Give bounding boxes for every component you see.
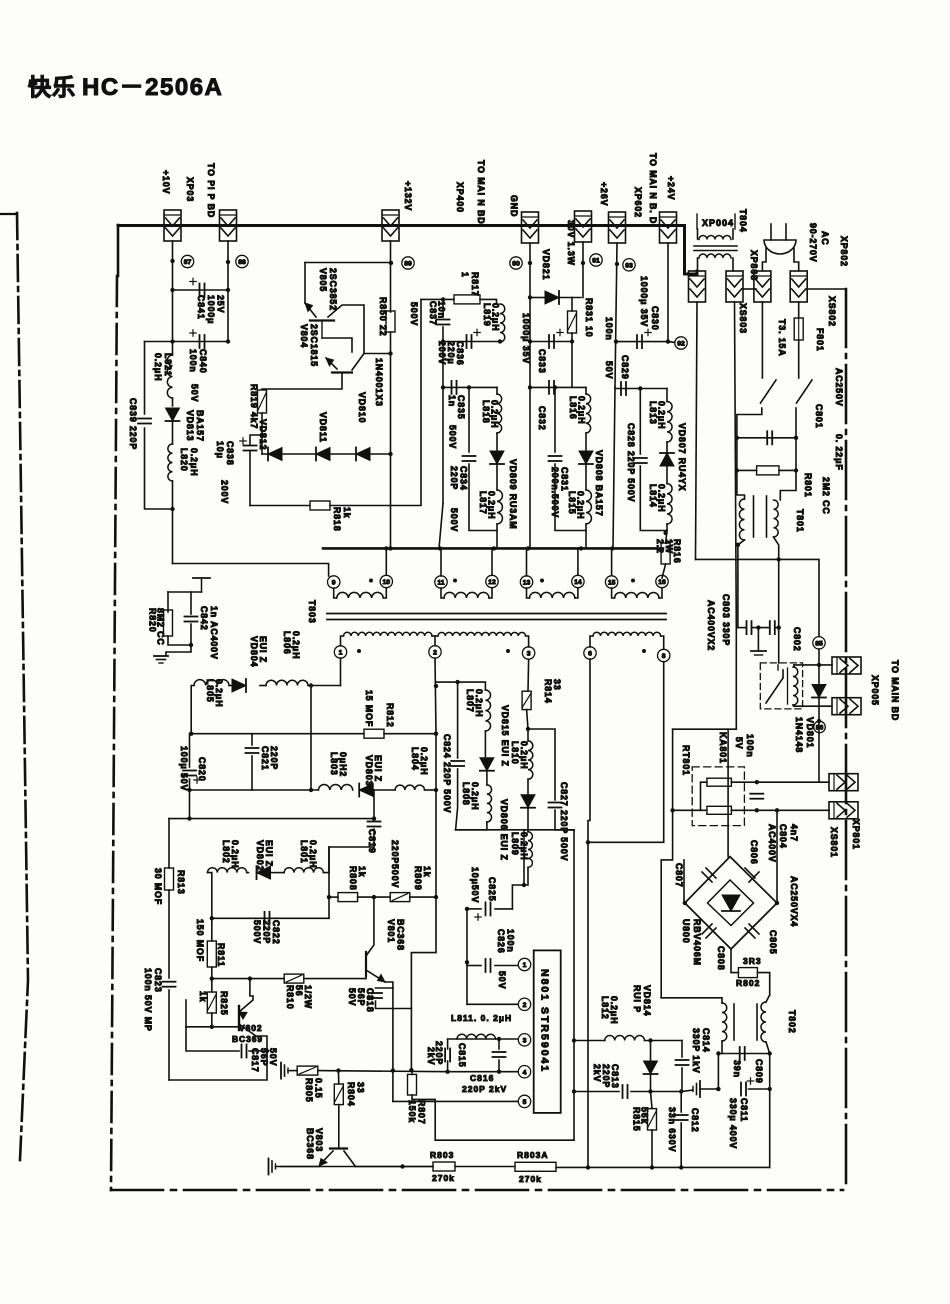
- svg-text:BC369: BC369: [232, 1034, 263, 1044]
- diode VD802: [257, 866, 271, 879]
- junction R825 bot: [210, 1025, 214, 1029]
- resistor R811: [207, 941, 216, 967]
- svg-text:39n: 39n: [732, 1060, 742, 1078]
- svg-text:C823: C823: [153, 968, 163, 993]
- label +132V: [403, 181, 413, 211]
- label C821: [260, 746, 279, 771]
- svg-text:T3. 15A: T3. 15A: [777, 319, 787, 357]
- junction C802 r: [777, 625, 781, 629]
- label C805: [768, 930, 778, 955]
- svg-text:XP602: XP602: [633, 187, 643, 218]
- wire left rail N801: [466, 909, 468, 1004]
- capacitor C828: [634, 457, 647, 459]
- capacitor C818: [369, 992, 382, 994]
- wire L816 top: [585, 387, 587, 394]
- capacitor C819: [368, 821, 381, 823]
- svg-text:L818: L818: [481, 400, 491, 424]
- svg-text:U800: U800: [681, 919, 691, 944]
- wire C814 down: [681, 1068, 683, 1092]
- junction R815 rail: [650, 1165, 654, 1169]
- junction R808 right: [372, 895, 376, 899]
- label XP803: [749, 250, 759, 281]
- svg-text:C802: C802: [792, 627, 802, 652]
- wire relay coil top: [793, 665, 795, 667]
- svg-text:T801: T801: [795, 509, 805, 533]
- capacitor C826: [485, 959, 487, 972]
- wire R816-pin16: [662, 564, 666, 578]
- resistor R804: [334, 1084, 343, 1105]
- svg-text:2.2: 2.2: [655, 539, 665, 554]
- wire R825 bot: [211, 1013, 213, 1027]
- wire relay feed: [778, 559, 780, 628]
- svg-text:0.2μH: 0.2μH: [474, 689, 484, 717]
- diode VD812: [268, 448, 282, 461]
- wire R810 row: [212, 978, 284, 980]
- label R810: [285, 985, 313, 1010]
- wire L801 row: [323, 847, 329, 873]
- junction C804 bot: [755, 808, 759, 812]
- wire C827 corridor: [573, 830, 575, 1140]
- svg-text:R811: R811: [216, 943, 226, 967]
- wire c3 mid: [571, 342, 573, 388]
- wire 93 to bus: [613, 387, 615, 548]
- connector XS801 row2: [829, 802, 858, 819]
- wire V801 emitter down: [392, 988, 394, 1070]
- label C842: [199, 606, 219, 660]
- svg-text:VD810: VD810: [357, 392, 367, 423]
- bottom rail: [281, 1166, 433, 1168]
- wire L816-VD808: [585, 433, 587, 450]
- wire C817 left: [186, 1027, 239, 1051]
- wire row1: [794, 664, 832, 666]
- ground R805: [280, 1063, 282, 1079]
- capacitor C811: [740, 1083, 742, 1096]
- wire 92 stub: [668, 341, 675, 344]
- wire V801 emitter: [385, 982, 393, 988]
- wire +132V down2: [390, 332, 392, 354]
- diode VD813: [166, 408, 180, 421]
- wire R807 leads: [411, 1070, 413, 1074]
- ground V803: [268, 1159, 270, 1175]
- wire c2 mid: [442, 342, 444, 388]
- diode VD808: [579, 451, 593, 464]
- wire R804 bot: [338, 1105, 340, 1147]
- label L808: [461, 782, 480, 810]
- svg-text:1: 1: [460, 272, 470, 278]
- RT801 left link: [701, 782, 707, 810]
- label VD815: [500, 705, 510, 767]
- label XP801: [851, 819, 861, 850]
- label +24V: [666, 176, 676, 200]
- wire C817 right: [249, 1050, 267, 1052]
- wire pin2 row: [467, 1003, 518, 1005]
- wire R808 row: [329, 896, 338, 898]
- label RT801: [681, 745, 691, 776]
- label VD821: [541, 249, 551, 280]
- label R805: [304, 1078, 324, 1103]
- switch S1b: [797, 380, 813, 403]
- label TO MAIN BD 2: [648, 153, 658, 228]
- svg-text:C815: C815: [457, 1043, 467, 1068]
- wire VD821-R831: [559, 297, 581, 299]
- svg-text:6: 6: [588, 651, 592, 658]
- wire L807 loop top: [458, 682, 486, 690]
- label XP802: [839, 236, 849, 267]
- svg-text:0.2μH: 0.2μH: [576, 491, 586, 519]
- svg-text:L816: L816: [568, 396, 578, 420]
- label R803: [430, 1150, 454, 1160]
- T803 winding 1-2: [341, 636, 344, 645]
- border bottom: [111, 1189, 843, 1192]
- label C814: [691, 1028, 711, 1074]
- wire R831 leads: [571, 298, 573, 312]
- svg-text:AC250VX4: AC250VX4: [789, 876, 799, 927]
- label VD813: [185, 410, 205, 442]
- svg-text:R808: R808: [348, 866, 358, 891]
- capacitor C838: [244, 445, 257, 447]
- wire VD814 lead: [650, 1041, 652, 1061]
- wire 93 down: [615, 243, 617, 387]
- label VD804: [249, 636, 268, 667]
- wire C834 down: [469, 464, 497, 531]
- wire R809 right: [410, 896, 436, 898]
- inductor L819: [500, 304, 505, 342]
- label T802: [787, 1010, 797, 1034]
- label C830: [650, 306, 660, 331]
- wire XP03 down: [172, 241, 174, 290]
- svg-text:C837: C837: [428, 301, 438, 326]
- label C841: [196, 295, 225, 324]
- svg-text:2SC1815: 2SC1815: [309, 324, 319, 367]
- svg-text:10n: 10n: [437, 301, 447, 319]
- wire C816 branch: [498, 1039, 500, 1049]
- junction R801 r: [794, 468, 798, 472]
- junction pin1 vert: [309, 683, 313, 687]
- svg-text:1W: 1W: [664, 539, 674, 554]
- wire VD803-L804: [373, 789, 395, 791]
- capacitor C823: [163, 981, 176, 983]
- label R813 value: [153, 868, 163, 905]
- svg-text:16: 16: [658, 579, 666, 586]
- wire C839 branch: [144, 342, 146, 415]
- label +26V: [599, 182, 609, 206]
- wire T801 left top: [737, 470, 745, 499]
- svg-text:F801: F801: [815, 328, 825, 352]
- svg-text:10: 10: [383, 579, 391, 586]
- thermistor RT801 box: [692, 767, 744, 826]
- wire base jog: [236, 1026, 240, 1028]
- svg-text:C807: C807: [674, 863, 684, 888]
- top bus +rail: [118, 224, 685, 227]
- svg-text:100n: 100n: [506, 929, 516, 953]
- svg-text:L811. 0. 2μH: L811. 0. 2μH: [451, 1013, 512, 1023]
- label L819: [482, 303, 501, 331]
- svg-text:0.2μH: 0.2μH: [308, 840, 318, 868]
- junction R816 top: [663, 531, 667, 535]
- junction bus p10: [384, 546, 388, 550]
- wire switch left bot: [737, 408, 762, 438]
- wire L807-VD815: [484, 731, 486, 757]
- pin circle 87: [181, 255, 193, 267]
- resistor R807: [408, 1074, 417, 1095]
- node stub T: [193, 577, 210, 579]
- svg-text:2: 2: [433, 650, 437, 657]
- svg-text:220P: 220P: [449, 466, 459, 490]
- capacitor C815: [444, 1049, 446, 1062]
- label C839: [128, 398, 138, 450]
- label C812: [690, 1108, 700, 1133]
- svg-text:XP802: XP802: [839, 236, 849, 267]
- resistor R803: [433, 1162, 455, 1171]
- wire diode row: [262, 453, 391, 455]
- label C801: [814, 404, 824, 429]
- wire C825 right: [495, 908, 512, 910]
- label C835: [447, 395, 466, 420]
- T802 core: [733, 1004, 735, 1040]
- wire L812 right: [645, 1040, 683, 1042]
- svg-text:1: 1: [339, 650, 343, 657]
- wire VD815-L808: [486, 771, 488, 785]
- diode VD809: [490, 451, 504, 464]
- svg-text:C813: C813: [610, 1064, 620, 1089]
- svg-text:R819 4k7: R819 4k7: [249, 384, 259, 429]
- svg-text:R803: R803: [430, 1150, 454, 1160]
- wire VD801 top: [818, 665, 820, 685]
- junction R810 a: [248, 976, 252, 980]
- junction C809 r: [768, 1051, 772, 1055]
- svg-text:RBV406M: RBV406M: [692, 919, 702, 966]
- wire pin13 up: [526, 548, 528, 576]
- junction 91: [581, 261, 585, 265]
- svg-text:0.2μH: 0.2μH: [419, 747, 429, 775]
- label C834 500V: [449, 508, 459, 532]
- label C816: [462, 1073, 507, 1094]
- label C829 value: [604, 317, 614, 379]
- IC pin circle 5: [518, 1095, 530, 1107]
- svg-text:C822: C822: [271, 920, 281, 945]
- svg-text:14: 14: [574, 579, 582, 586]
- svg-text:VD804: VD804: [249, 636, 259, 667]
- wire C836 row: [443, 341, 500, 343]
- connector +24V: [660, 212, 677, 243]
- svg-text:C842: C842: [199, 606, 209, 631]
- svg-text:50V: 50V: [347, 988, 357, 1006]
- label L810: [510, 741, 529, 769]
- wire R812 row2: [384, 733, 436, 735]
- wire C828 down: [640, 466, 667, 531]
- capacitor C822: [264, 912, 266, 925]
- svg-text:150 MOF: 150 MOF: [195, 919, 205, 962]
- diode VD806: [521, 795, 535, 808]
- junction 87: [170, 259, 174, 263]
- wire V803 out: [356, 1166, 434, 1168]
- label C837: [428, 301, 447, 326]
- svg-text:89: 89: [404, 261, 412, 268]
- wire T802 left top: [661, 998, 722, 1003]
- capacitor C801: [766, 431, 768, 444]
- label C825: [487, 877, 497, 902]
- label C820: [197, 757, 207, 782]
- junction pin8 join: [586, 840, 590, 844]
- junction bridge right: [775, 901, 779, 905]
- wire mid rail 830: [456, 829, 574, 831]
- connector XP005 row2: [832, 698, 861, 715]
- wire C815 down: [447, 1061, 449, 1072]
- svg-text:1k: 1k: [422, 866, 432, 878]
- wire pin4 rail: [318, 1071, 448, 1072]
- inductor L812: [605, 1036, 645, 1041]
- svg-text:VD803: VD803: [364, 755, 374, 786]
- wire XP803 link: [742, 288, 756, 290]
- svg-text:R810: R810: [285, 985, 295, 1010]
- wire 672 down: [672, 729, 674, 810]
- label R816 value: [655, 539, 674, 554]
- IC pin circle 4: [518, 1066, 530, 1078]
- svg-text:快乐: 快乐: [28, 74, 76, 100]
- label C836: [437, 341, 465, 366]
- connector XP801 row1: [829, 774, 858, 791]
- wire pin3 down: [527, 660, 530, 691]
- wire L812 row: [574, 1040, 605, 1042]
- svg-text:1000μ 35V: 1000μ 35V: [639, 276, 649, 327]
- capacitor C809: [739, 1047, 741, 1060]
- svg-text:VD811: VD811: [318, 412, 328, 443]
- wire L818-VD809: [496, 433, 498, 450]
- inductor L805: [194, 680, 229, 686]
- wire R813 down: [168, 890, 170, 978]
- wire R818 row: [250, 505, 310, 507]
- label C832: [537, 406, 547, 431]
- wire R817 row: [421, 298, 454, 300]
- wire VD801 bot: [818, 698, 820, 707]
- wire snubber loop top: [168, 591, 202, 593]
- label V804: [299, 324, 319, 367]
- svg-text:L808: L808: [461, 782, 471, 806]
- label C829: [620, 355, 630, 380]
- svg-text:R818: R818: [332, 507, 342, 532]
- wire pin3 row: [448, 1038, 518, 1040]
- wire C824 branch: [457, 682, 459, 758]
- label R850: [378, 297, 388, 337]
- svg-text:0.2μH: 0.2μH: [487, 491, 497, 519]
- svg-text:R804: R804: [346, 1082, 356, 1107]
- wire R801 leads: [737, 469, 757, 471]
- svg-text:270k: 270k: [432, 1173, 455, 1183]
- wire C803 row c: [775, 627, 779, 629]
- border right: [845, 289, 848, 1190]
- wire pin14 up: [577, 548, 579, 575]
- wire L801 right vert: [328, 847, 330, 918]
- bottom rail 2: [455, 1166, 515, 1168]
- label C833: [537, 349, 547, 374]
- wire +132V down3: [390, 354, 392, 549]
- capacitor C833: [548, 335, 550, 348]
- inductor L811: [457, 1034, 495, 1039]
- T804 core: [694, 245, 737, 247]
- wire T801 right bot: [774, 537, 779, 559]
- connector XP602 pin91: [575, 211, 592, 242]
- capacitor C803: [746, 621, 748, 634]
- label C804: [767, 824, 799, 863]
- svg-text:V803: V803: [314, 1128, 324, 1152]
- junction C830 left: [614, 339, 618, 343]
- svg-text:EUI Z: EUI Z: [264, 840, 274, 867]
- bridge diode: [722, 895, 740, 911]
- resistor RT801a: [707, 778, 732, 786]
- label 3R3: [743, 956, 762, 966]
- wire V801 base: [365, 964, 367, 979]
- svg-text:500V: 500V: [448, 425, 458, 449]
- pin circle 88: [236, 255, 248, 267]
- svg-text:VD813: VD813: [185, 410, 195, 441]
- wire E line: [735, 302, 737, 628]
- wire C803 mid stub: [757, 628, 759, 650]
- wire R805 lead: [288, 1070, 297, 1072]
- label VD811: [318, 412, 328, 443]
- wire C828 branch: [639, 389, 641, 455]
- wire plug right: [794, 248, 799, 271]
- wire C803 row: [738, 627, 747, 629]
- wire snubber gnd lead: [166, 645, 191, 655]
- diode VD804: [232, 679, 246, 692]
- svg-text:TO MAI N B. D.: TO MAI N B. D.: [648, 153, 658, 228]
- pin circle 90: [510, 257, 522, 269]
- resistor R820: [164, 610, 173, 636]
- wire T801 left bot: [738, 540, 745, 627]
- wire relay coil bot: [793, 705, 794, 706]
- junction L807 top: [455, 680, 459, 684]
- wire R813 rail: [168, 819, 170, 868]
- label XS803: [738, 303, 748, 334]
- inductor L820: [168, 444, 173, 481]
- label VD810: [357, 392, 367, 423]
- label TO MAIN BD: [476, 160, 486, 228]
- inductor L821: [167, 355, 172, 398]
- connector GND XP400-2: [522, 212, 539, 243]
- svg-text:BC368: BC368: [396, 919, 406, 951]
- wire L814 bottom: [666, 524, 668, 531]
- label AC: [820, 231, 830, 246]
- capacitor C837: [437, 319, 450, 321]
- label 39n: [732, 1060, 742, 1078]
- capacitor C820: [183, 770, 196, 772]
- pin circle 85: [813, 637, 825, 649]
- svg-text:0. 22μF: 0. 22μF: [834, 434, 844, 471]
- XP004 bracket: [696, 214, 698, 229]
- wire XS802 border link: [807, 288, 846, 290]
- wire pin5 row: [393, 1100, 518, 1102]
- wire L808 bottom: [456, 822, 487, 830]
- label C830 value: [639, 276, 649, 327]
- wire L815 bottom: [585, 524, 587, 548]
- transistor V801: [365, 952, 367, 976]
- transistor V805: [310, 319, 334, 321]
- label VD821 value: [566, 220, 576, 266]
- wire C821 branch: [251, 734, 253, 745]
- label R816: [672, 539, 682, 564]
- IC pin circle 1: [518, 958, 530, 970]
- label R819: [249, 384, 259, 429]
- svg-text:2kV: 2kV: [426, 1047, 436, 1065]
- svg-text:R825: R825: [219, 991, 229, 1016]
- junction C836 left: [441, 339, 445, 343]
- svg-text:XS801: XS801: [829, 827, 839, 858]
- wire C820 down: [189, 779, 191, 819]
- label L817: [478, 491, 497, 519]
- svg-text:15: 15: [608, 580, 616, 587]
- svg-text:1: 1: [523, 962, 527, 969]
- svg-text:T802: T802: [787, 1010, 797, 1034]
